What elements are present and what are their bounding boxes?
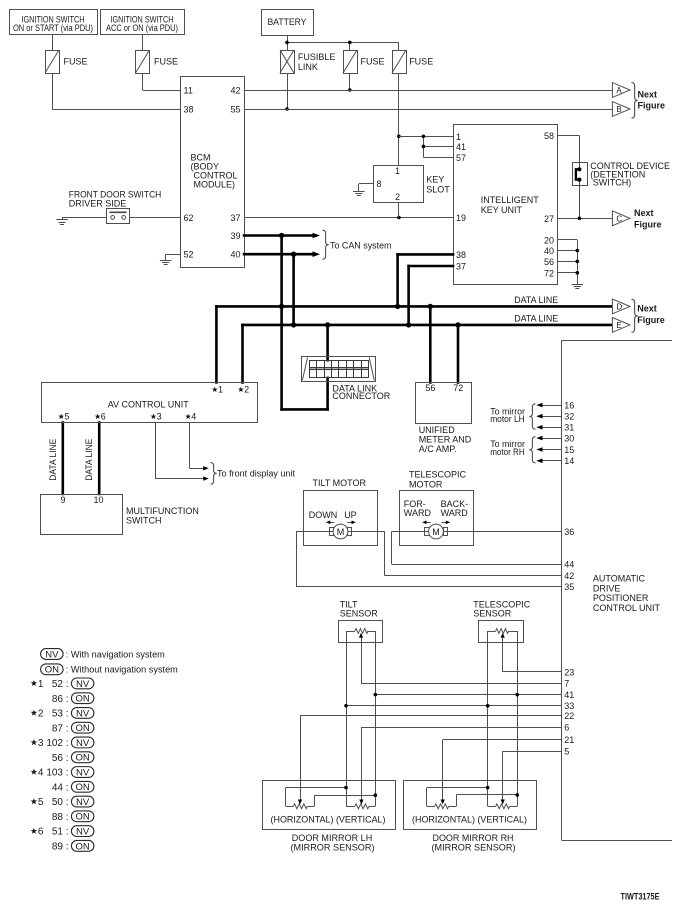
svg-text:FUSE: FUSE (64, 57, 88, 67)
svg-text:NV: NV (76, 797, 90, 808)
svg-text:30: 30 (564, 434, 574, 444)
svg-text:WARD: WARD (441, 508, 469, 518)
svg-text:20: 20 (544, 235, 554, 245)
svg-text:21: 21 (564, 735, 574, 745)
svg-text:SENSOR: SENSOR (340, 609, 379, 619)
svg-text:55: 55 (230, 105, 240, 115)
svg-text:58: 58 (544, 131, 554, 141)
svg-text:4: 4 (191, 412, 196, 422)
svg-text:NV: NV (76, 708, 90, 719)
svg-text:AUTOMATIC: AUTOMATIC (593, 574, 646, 584)
svg-text:37: 37 (456, 262, 466, 272)
svg-text::: : (66, 753, 69, 764)
svg-text:5: 5 (38, 797, 44, 808)
svg-text:56: 56 (425, 383, 435, 393)
svg-text:1: 1 (456, 132, 461, 142)
svg-text:E: E (616, 321, 621, 330)
svg-text:ON: ON (76, 812, 90, 823)
svg-text:57: 57 (456, 153, 466, 163)
svg-text:AV CONTROL UNIT: AV CONTROL UNIT (108, 399, 190, 409)
svg-text::: : (66, 723, 69, 734)
svg-text:FUSE: FUSE (154, 57, 178, 67)
svg-text:MOTOR: MOTOR (409, 480, 443, 490)
svg-text:ACC or ON (via PDU): ACC or ON (via PDU) (106, 23, 178, 33)
svg-text:ON: ON (76, 694, 90, 705)
svg-text:2: 2 (244, 385, 249, 395)
svg-text:52: 52 (52, 679, 64, 690)
svg-text:72: 72 (544, 268, 554, 278)
svg-text:102: 102 (46, 738, 63, 749)
svg-text:: Without navigation system: : Without navigation system (66, 665, 178, 676)
svg-text:44: 44 (564, 560, 574, 570)
svg-text:86: 86 (52, 694, 64, 705)
svg-text:88: 88 (52, 812, 64, 823)
svg-text:44: 44 (52, 782, 64, 793)
svg-text:103: 103 (46, 768, 63, 779)
svg-text:ON or START (via PDU): ON or START (via PDU) (13, 23, 93, 33)
svg-text:TIWT3175E: TIWT3175E (621, 892, 660, 902)
svg-text:WARD: WARD (404, 508, 432, 518)
svg-text::: : (66, 782, 69, 793)
svg-text:31: 31 (564, 423, 574, 433)
svg-text:NV: NV (76, 679, 90, 690)
svg-text:3: 3 (157, 412, 162, 422)
svg-text::: : (66, 812, 69, 823)
svg-text:72: 72 (453, 383, 463, 393)
svg-text:14: 14 (564, 456, 574, 466)
svg-text:CONNECTOR: CONNECTOR (332, 391, 390, 401)
svg-text:22: 22 (564, 711, 574, 721)
svg-text::: : (66, 694, 69, 705)
svg-text:19: 19 (456, 213, 466, 223)
svg-text:SWITCH): SWITCH) (593, 178, 632, 188)
svg-text:Figure: Figure (637, 315, 665, 325)
svg-text:16: 16 (564, 401, 574, 411)
svg-text:38: 38 (456, 250, 466, 260)
svg-text:B: B (616, 105, 621, 114)
svg-text:40: 40 (544, 246, 554, 256)
svg-text:23: 23 (564, 667, 574, 677)
svg-text:3: 3 (38, 738, 44, 749)
svg-text:SENSOR: SENSOR (473, 609, 512, 619)
svg-text:NV: NV (76, 738, 90, 749)
svg-text:SWITCH: SWITCH (126, 516, 162, 526)
svg-text:6: 6 (101, 412, 106, 422)
svg-text:56: 56 (52, 753, 64, 764)
svg-text:MULTIFUNCTION: MULTIFUNCTION (126, 506, 199, 516)
svg-text:51: 51 (52, 827, 64, 838)
svg-text:INTELLIGENT: INTELLIGENT (481, 195, 540, 205)
svg-text::: : (66, 709, 69, 720)
svg-text:FUSE: FUSE (409, 57, 433, 67)
svg-text::: : (66, 679, 69, 690)
svg-text:DRIVER SIDE: DRIVER SIDE (69, 199, 127, 209)
svg-text:CONTROL UNIT: CONTROL UNIT (593, 603, 661, 613)
svg-text::: : (66, 738, 69, 749)
svg-text:A: A (616, 86, 622, 95)
svg-text:53: 53 (52, 709, 64, 720)
svg-text:DATA LINE: DATA LINE (48, 439, 58, 481)
svg-text:4: 4 (38, 768, 44, 779)
svg-text:motor RH: motor RH (490, 447, 525, 457)
svg-text:ON: ON (76, 753, 90, 764)
svg-text:KEY: KEY (426, 175, 444, 185)
svg-text:(HORIZONTAL) (VERTICAL): (HORIZONTAL) (VERTICAL) (271, 815, 386, 825)
svg-text:: With navigation system: : With navigation system (66, 649, 165, 660)
svg-text:D: D (616, 302, 622, 311)
svg-text:(MIRROR SENSOR): (MIRROR SENSOR) (432, 842, 516, 852)
svg-text:KEY UNIT: KEY UNIT (481, 205, 523, 215)
svg-text:1: 1 (218, 385, 223, 395)
svg-text:27: 27 (544, 214, 554, 224)
svg-text:32: 32 (564, 412, 574, 422)
svg-text:7: 7 (564, 679, 569, 689)
svg-text:2: 2 (38, 709, 44, 720)
svg-text:FUSE: FUSE (361, 57, 385, 67)
svg-text::: : (66, 827, 69, 838)
svg-text:(MIRROR SENSOR): (MIRROR SENSOR) (291, 842, 375, 852)
svg-text:1: 1 (395, 166, 400, 176)
svg-text:35: 35 (564, 582, 574, 592)
svg-text::: : (66, 768, 69, 779)
svg-text:DATA LINE: DATA LINE (514, 314, 558, 324)
svg-text:FUSIBLE: FUSIBLE (298, 52, 336, 62)
svg-text:LINK: LINK (298, 62, 318, 72)
svg-text:62: 62 (184, 213, 194, 223)
svg-text:5: 5 (564, 747, 569, 757)
svg-text:8: 8 (377, 179, 382, 189)
svg-text:33: 33 (564, 701, 574, 711)
svg-text:DRIVE: DRIVE (593, 583, 621, 593)
svg-text::: : (66, 797, 69, 808)
svg-text:42: 42 (230, 86, 240, 96)
svg-text:ON: ON (76, 782, 90, 793)
svg-text:9: 9 (60, 495, 65, 505)
svg-text:87: 87 (52, 723, 64, 734)
svg-text:TELESCOPIC: TELESCOPIC (409, 470, 467, 480)
svg-text:A/C AMP.: A/C AMP. (419, 444, 457, 454)
svg-text:36: 36 (564, 527, 574, 537)
svg-text:DATA LINE: DATA LINE (84, 439, 94, 481)
svg-text:Next: Next (634, 208, 654, 218)
svg-text:TILT MOTOR: TILT MOTOR (313, 478, 367, 488)
svg-text:10: 10 (93, 495, 103, 505)
svg-text:Figure: Figure (638, 101, 666, 111)
svg-text:ON: ON (76, 841, 90, 852)
svg-text:POSITIONER: POSITIONER (593, 593, 649, 603)
svg-text:2: 2 (395, 192, 400, 202)
svg-text:NV: NV (76, 767, 90, 778)
svg-text:UP: UP (344, 510, 357, 520)
svg-text:15: 15 (564, 445, 574, 455)
svg-text:Next: Next (637, 303, 657, 313)
svg-text:37: 37 (230, 213, 240, 223)
svg-text:Figure: Figure (634, 219, 662, 229)
svg-text:39: 39 (230, 231, 240, 241)
svg-text:6: 6 (564, 722, 569, 732)
svg-text:To CAN system: To CAN system (330, 241, 392, 251)
svg-text:DATA LINE: DATA LINE (514, 295, 558, 305)
svg-text:40: 40 (230, 250, 240, 260)
svg-text:motor LH: motor LH (490, 414, 525, 424)
svg-text:C: C (616, 214, 622, 223)
svg-text:SLOT: SLOT (426, 185, 450, 195)
svg-text:M: M (432, 527, 440, 537)
svg-text:52: 52 (184, 250, 194, 260)
svg-text:(HORIZONTAL) (VERTICAL): (HORIZONTAL) (VERTICAL) (412, 815, 527, 825)
svg-text:50: 50 (52, 797, 64, 808)
svg-text:41: 41 (456, 142, 466, 152)
svg-text:M: M (337, 527, 345, 537)
svg-text:To front display unit: To front display unit (217, 468, 295, 478)
svg-text:6: 6 (38, 827, 44, 838)
svg-text:ON: ON (76, 723, 90, 734)
svg-text:1: 1 (38, 679, 44, 690)
svg-text:MODULE): MODULE) (194, 180, 236, 190)
svg-text:56: 56 (544, 257, 554, 267)
svg-text:DOWN: DOWN (309, 510, 338, 520)
svg-text:5: 5 (64, 412, 69, 422)
svg-text:ON: ON (45, 665, 59, 676)
svg-text:NV: NV (45, 649, 59, 660)
svg-text:NV: NV (76, 827, 90, 838)
svg-text:42: 42 (564, 571, 574, 581)
svg-text:41: 41 (564, 690, 574, 700)
svg-text::: : (66, 841, 69, 852)
svg-text:BATTERY: BATTERY (268, 17, 307, 27)
svg-text:Next: Next (638, 90, 658, 100)
svg-text:38: 38 (184, 105, 194, 115)
svg-text:11: 11 (184, 86, 193, 96)
svg-text:89: 89 (52, 841, 64, 852)
